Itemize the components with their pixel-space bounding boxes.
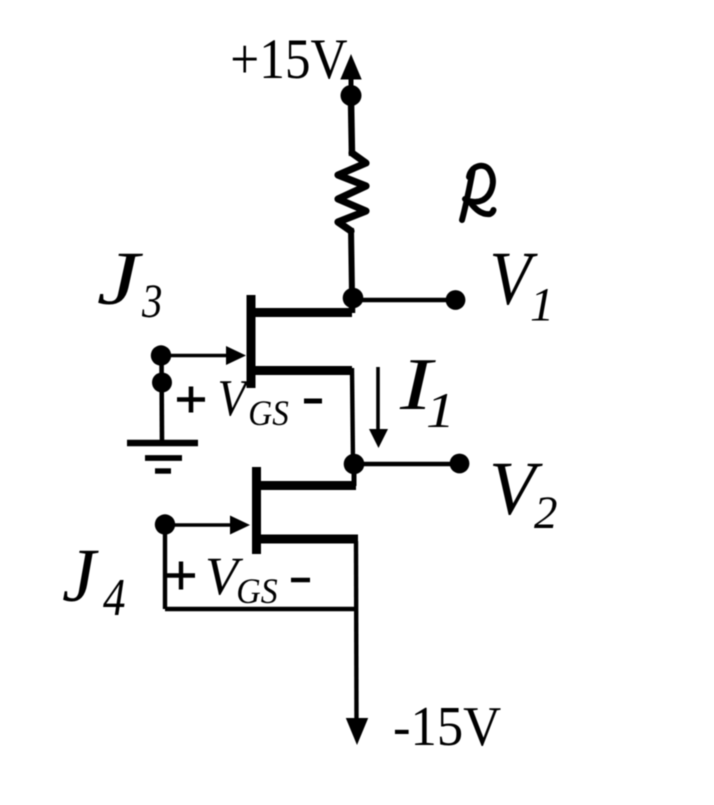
J3 drain stub	[349, 296, 356, 313]
+15V arrow	[340, 54, 361, 92]
node A: supply node	[341, 85, 362, 106]
svg-text:J: J	[62, 534, 99, 618]
J3 minus sign of VGS	[304, 399, 322, 404]
svg-text:J: J	[97, 236, 144, 320]
V1 terminal node	[446, 290, 466, 310]
svg-text:GS: GS	[248, 394, 288, 434]
J4 source bar	[252, 535, 358, 544]
node B: V1 / drain junction	[343, 288, 364, 309]
svg-text:2: 2	[534, 487, 558, 539]
svg-text:1: 1	[426, 382, 455, 438]
-15V arrowhead	[346, 718, 368, 745]
svg-text:1: 1	[530, 279, 554, 332]
svg-text:4: 4	[103, 568, 126, 627]
node: J3 gate	[151, 345, 171, 365]
wire resistor to V1 node	[351, 228, 352, 294]
J4 gate wire with arrow	[165, 516, 250, 535]
wire J4 source to -15V	[354, 541, 359, 722]
svg-text:+15V: +15V	[230, 28, 347, 91]
wire to V2 terminal	[354, 462, 456, 466]
J3 gate wire with arrow	[161, 346, 246, 365]
svg-text:GS: GS	[236, 571, 277, 611]
wire J4 gate down	[163, 525, 167, 609]
J3 gate bar	[247, 295, 256, 388]
J4 plus sign of VGS	[167, 562, 195, 590]
svg-text:3: 3	[141, 274, 162, 328]
J4 gate bar	[252, 467, 261, 554]
J3 plus sign of VGS	[177, 387, 205, 413]
wire gate node to ground	[159, 356, 164, 441]
svg-text:V: V	[218, 369, 251, 427]
node: below J3 gate	[152, 373, 172, 393]
ground	[127, 443, 198, 471]
wire supply node to resistor	[351, 100, 352, 156]
J4 drain bar	[252, 481, 356, 490]
wire to V1 terminal	[353, 298, 452, 302]
node C: V2 / junction	[344, 454, 365, 475]
J4 minus sign of VGS	[291, 578, 310, 583]
I1 current arrow	[369, 367, 388, 448]
J3 drain bar	[247, 308, 352, 317]
V2 terminal node	[450, 454, 470, 474]
wire gate-to-source bottom link	[165, 607, 356, 611]
transistor J4 (n-JFET)	[252, 466, 358, 554]
transistor J3 (n-JFET)	[247, 295, 352, 388]
resistor R	[338, 153, 366, 231]
resistor value label R (handwritten script)	[462, 166, 494, 220]
node: J4 gate	[155, 514, 175, 534]
wire J3 source to V2 node	[352, 368, 353, 462]
svg-text:-15V: -15V	[393, 696, 501, 758]
J4 drain stub	[352, 466, 357, 486]
J3 source bar	[247, 366, 352, 375]
